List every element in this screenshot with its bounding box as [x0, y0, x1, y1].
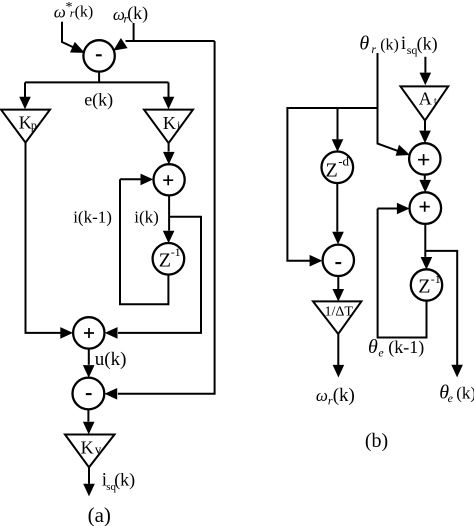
wire i(k) tap to summer S3	[118, 217, 201, 333]
summing junction S7 (+)	[410, 192, 442, 224]
node caption (b)	[365, 430, 388, 452]
svg-text:e: e	[448, 391, 454, 405]
node θr input label	[359, 33, 398, 56]
svg-text:(b): (b)	[365, 430, 388, 452]
svg-text:v: v	[95, 442, 102, 457]
svg-text:Z: Z	[418, 276, 430, 298]
wire isq input to gain A	[424, 57, 426, 73]
svg-text:(a): (a)	[88, 503, 111, 526]
svg-text:i(k-1): i(k-1)	[73, 208, 112, 227]
svg-text:K: K	[163, 113, 176, 133]
wire i(k-1) feedback into S2	[120, 178, 142, 180]
gain block Kp	[1, 110, 50, 143]
node i(k) label	[134, 208, 159, 227]
svg-text:t: t	[434, 97, 437, 107]
wire divider output ωr(k)	[337, 334, 339, 365]
summing junction S2 (+)	[154, 164, 185, 195]
node u(k) label	[95, 349, 127, 370]
svg-text:A: A	[419, 89, 432, 109]
summing junction S6 (-)	[323, 245, 354, 276]
svg-text:K: K	[19, 113, 32, 133]
svg-text:-1: -1	[171, 245, 181, 259]
svg-text:u(k): u(k)	[95, 349, 127, 370]
summing junction S1 (-)	[83, 40, 114, 71]
wire ωr* input to summer S1	[62, 22, 74, 48]
wire S2 output i(k) to delay Z1	[168, 195, 170, 230]
gain block Ki	[144, 110, 193, 144]
wire e(k) to gain Kp	[24, 82, 26, 97]
delay block Z3 (z^-1)	[411, 269, 442, 300]
svg-text:(k): (k)	[417, 34, 438, 55]
wire θr trunk with branch bar	[287, 53, 397, 261]
svg-text:θ: θ	[368, 336, 378, 358]
svg-text:(k): (k)	[333, 385, 355, 406]
svg-text:(k): (k)	[75, 3, 94, 20]
node ωr feedback input label	[113, 3, 148, 25]
wire S5 output to summer S7	[424, 175, 426, 180]
node isq input label	[401, 33, 438, 57]
node e(k) label	[84, 90, 113, 111]
wire Kp output to summer S3	[26, 143, 62, 333]
summing junction S5 (+)	[409, 143, 440, 174]
svg-text:ω: ω	[316, 386, 328, 405]
svg-text:e: e	[378, 345, 384, 359]
svg-text:ω: ω	[54, 2, 66, 21]
node ωr* reference input label	[54, 0, 94, 21]
svg-text:p: p	[31, 118, 37, 132]
wire θe(k-1) feedback into S7	[378, 208, 398, 210]
wire S3 output u(k) to summer S4	[88, 349, 90, 365]
svg-text:-1: -1	[431, 272, 441, 286]
wire e(k) to gain Ki	[168, 82, 170, 97]
svg-text:i(k): i(k)	[134, 208, 159, 227]
wire ωr input to summer S1 and feedback rail	[126, 23, 215, 41]
gain block A	[401, 86, 449, 120]
svg-text:1/ΔT: 1/ΔT	[325, 305, 354, 320]
node caption (a)	[88, 503, 111, 526]
gain block Kv	[65, 435, 115, 468]
wire Kv output isq(k)	[88, 467, 90, 484]
svg-text:(k): (k)	[127, 3, 148, 24]
wire S1 output e(k) split bar	[25, 72, 169, 83]
wire S6 output to divider block	[337, 276, 339, 289]
svg-text:(k-1): (k-1)	[388, 337, 424, 358]
wire ωr feedback rail into S4	[118, 41, 215, 394]
wire Z2 output to summer S6	[336, 183, 338, 232]
wire Ki output to summer S2	[168, 143, 170, 151]
node θe(k) output label	[439, 382, 474, 405]
wire Z3 output loop back to S7	[378, 209, 427, 338]
svg-text:r: r	[371, 42, 376, 56]
svg-text:K: K	[81, 438, 94, 458]
wire Z1 output loop back to S2	[120, 179, 168, 304]
summing junction S3 (+)	[73, 317, 104, 348]
svg-text:Z: Z	[326, 160, 338, 182]
svg-text:(k): (k)	[114, 470, 135, 491]
svg-text:-d: -d	[338, 154, 349, 169]
wire S7 output to Z3 with θe tap	[425, 224, 457, 365]
svg-text:(k): (k)	[380, 37, 399, 54]
wire A output to summer S5	[424, 121, 426, 131]
wire θr branch to delay Z2	[337, 108, 339, 139]
delay block Z1 (z^-1)	[153, 243, 185, 275]
delay block Z2 (z^-d)	[322, 152, 354, 184]
svg-text:i: i	[401, 33, 406, 54]
svg-text:(k): (k)	[456, 383, 474, 402]
svg-text:Z: Z	[159, 250, 171, 272]
node ωr(k) output label	[316, 385, 355, 408]
svg-text:e(k): e(k)	[84, 90, 113, 111]
node isq(k) output label	[102, 470, 136, 494]
gain block 1/ΔT	[313, 301, 361, 334]
node θe(k-1) label	[368, 336, 424, 359]
wire S4 output to gain Kv	[87, 409, 89, 421]
svg-text:θ: θ	[359, 33, 369, 55]
summing junction S4 (-)	[73, 378, 105, 410]
node i(k-1) label	[73, 208, 112, 227]
